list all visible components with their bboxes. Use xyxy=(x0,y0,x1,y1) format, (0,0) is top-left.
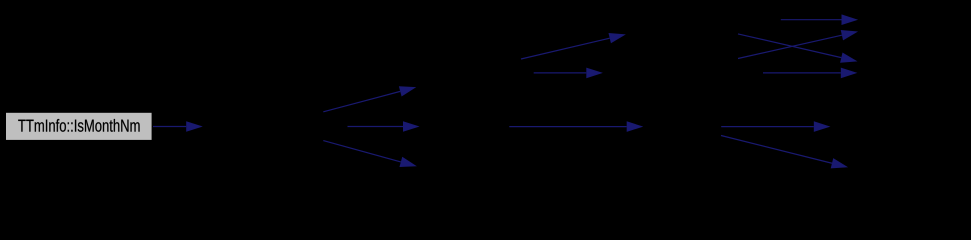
edge 11: right cluster lower horizontal xyxy=(763,68,857,79)
edge 6: mid cluster short horizontal xyxy=(534,68,603,79)
edge 2: node2 to node3 upper xyxy=(323,86,416,112)
edge 7: mid cluster long horizontal xyxy=(509,121,643,132)
edge 1: IsMonthNm to node2 xyxy=(153,121,203,132)
edge 5: mid cluster diagonal up xyxy=(521,33,626,59)
edge 13: right diagonal down xyxy=(721,136,848,169)
edge 4: node2 to node5 lower xyxy=(323,141,417,167)
edge 10: right cluster diagonal up xyxy=(738,30,858,58)
edge 3: node2 to node4 middle xyxy=(348,121,420,132)
edge 8: right cluster top horizontal xyxy=(781,14,858,25)
node TTmInfo::IsMonthNm (highlighted box) xyxy=(6,113,152,140)
edge 12: right horizontal xyxy=(721,121,830,132)
edge 9: right cluster diagonal down xyxy=(738,34,857,63)
